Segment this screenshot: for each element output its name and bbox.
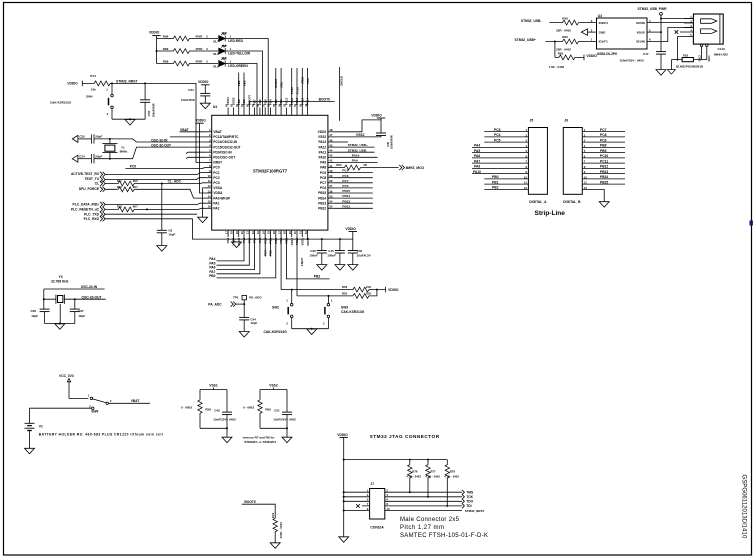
net BOOT0 bbox=[249, 102, 334, 108]
svg-text:PC15/OSC32-OUT: PC15/OSC32-OUT bbox=[213, 145, 240, 149]
net PB13 bbox=[335, 202, 373, 204]
capacitor C37 bbox=[74, 299, 76, 323]
capacitor C26 bbox=[317, 251, 327, 254]
svg-text:10nF/25V - 0402: 10nF/25V - 0402 bbox=[213, 417, 236, 421]
svg-text:PC1: PC1 bbox=[213, 171, 219, 175]
ground bbox=[239, 332, 249, 338]
wire PB8 bbox=[243, 73, 245, 108]
svg-text:6K7: 6K7 bbox=[133, 185, 138, 189]
MCU top pin stubs bbox=[228, 108, 308, 116]
svg-text:R60: R60 bbox=[562, 35, 568, 39]
svg-text:SH11: SH11 bbox=[708, 55, 711, 62]
USB shield pins bbox=[700, 44, 702, 46]
svg-text:STM32F100RGT7: STM32F100RGT7 bbox=[253, 169, 288, 174]
svg-text:8MHZ_MCO: 8MHZ_MCO bbox=[406, 166, 425, 170]
svg-text:TDI: TDI bbox=[466, 504, 471, 508]
capacitor C44 bbox=[239, 317, 249, 320]
svg-text:CON10A: CON10A bbox=[370, 526, 384, 530]
svg-text:4.7K - 0402: 4.7K - 0402 bbox=[444, 475, 459, 479]
svg-text:VDDIO: VDDIO bbox=[67, 82, 78, 86]
net flag TCK bbox=[462, 495, 464, 500]
svg-text:R58: R58 bbox=[205, 407, 211, 411]
svg-text:PC10: PC10 bbox=[600, 154, 608, 158]
svg-text:10K: 10K bbox=[366, 285, 371, 289]
svg-text:R68: R68 bbox=[163, 60, 169, 64]
svg-text:J6: J6 bbox=[564, 119, 568, 123]
svg-text:47: 47 bbox=[329, 133, 333, 137]
svg-text:R52: R52 bbox=[336, 163, 342, 167]
svg-text:100nF: 100nF bbox=[309, 253, 318, 257]
svg-text:PB13: PB13 bbox=[318, 201, 326, 205]
svg-text:PB12: PB12 bbox=[600, 165, 608, 169]
svg-text:C24: C24 bbox=[79, 154, 85, 158]
svg-text:Male Connector 2x5: Male Connector 2x5 bbox=[400, 517, 460, 523]
svg-text:STM32_NRST: STM32_NRST bbox=[116, 79, 137, 83]
resistor R60 bbox=[259, 390, 261, 429]
svg-text:PC4: PC4 bbox=[494, 133, 501, 137]
svg-text:JTDO: JTDO bbox=[301, 76, 305, 84]
svg-text:PC5: PC5 bbox=[269, 250, 273, 256]
svg-text:10: 10 bbox=[208, 174, 212, 178]
switch SW6 bbox=[90, 397, 92, 399]
J5 wires rows 10-12 bbox=[484, 179, 528, 190]
node bbox=[129, 118, 131, 120]
svg-text:PA10: PA10 bbox=[352, 153, 360, 157]
wire LED-YELLOW net bbox=[225, 51, 262, 115]
svg-text:VBAT: VBAT bbox=[180, 128, 189, 132]
svg-text:BOOT0: BOOT0 bbox=[319, 97, 331, 101]
ground bbox=[55, 324, 65, 330]
svg-text:10pF: 10pF bbox=[250, 321, 257, 325]
svg-text:DFU_FORCE: DFU_FORCE bbox=[79, 187, 100, 191]
wire bbox=[30, 408, 92, 423]
svg-text:NRST: NRST bbox=[213, 161, 222, 165]
svg-text:VBUS: VBUS bbox=[636, 30, 644, 34]
svg-text:PLC_TXD: PLC_TXD bbox=[84, 212, 100, 216]
svg-text:TCK: TCK bbox=[466, 495, 473, 499]
wire PA5 bbox=[217, 237, 250, 265]
svg-text:3K6: 3K6 bbox=[133, 179, 138, 183]
svg-text:PA_ADC: PA_ADC bbox=[208, 302, 222, 306]
capacitor C49 bbox=[226, 390, 228, 429]
net flag TDO bbox=[462, 499, 464, 504]
wire bbox=[112, 118, 145, 120]
svg-text:39: 39 bbox=[329, 174, 333, 178]
crystal Y1 bbox=[109, 139, 111, 159]
capacitor C47 bbox=[656, 52, 666, 55]
svg-text:100nF: 100nF bbox=[327, 253, 336, 257]
svg-text:4.7K - 0402: 4.7K - 0402 bbox=[425, 475, 440, 479]
svg-text:R77: R77 bbox=[431, 469, 437, 473]
svg-text:10pF: 10pF bbox=[78, 314, 85, 318]
wire VSSA bbox=[203, 188, 206, 217]
svg-text:PC13/TAMP/RTC: PC13/TAMP/RTC bbox=[213, 135, 239, 139]
svg-text:U4: U4 bbox=[598, 14, 602, 18]
net flag TMS bbox=[462, 490, 464, 495]
capacitor C45 bbox=[335, 251, 345, 254]
svg-text:PC7: PC7 bbox=[600, 128, 607, 132]
capacitor C46 bbox=[348, 251, 358, 254]
wire PB11 to SW3 bbox=[296, 237, 298, 296]
svg-text:PB6: PB6 bbox=[258, 99, 262, 105]
svg-text:PC0: PC0 bbox=[130, 164, 137, 168]
IC U4 USBLC6-2P6 bbox=[597, 18, 648, 49]
svg-text:PLC_DATA_INDx: PLC_DATA_INDx bbox=[73, 203, 100, 207]
wire TDO bbox=[307, 68, 309, 108]
svg-text:C&K-KSR213G: C&K-KSR213G bbox=[264, 330, 288, 334]
svg-text:STM32_USB+: STM32_USB+ bbox=[515, 38, 536, 42]
MCU left pin stubs and names bbox=[206, 132, 212, 209]
svg-text:R66: R66 bbox=[163, 35, 169, 39]
connector J7 bbox=[370, 489, 385, 520]
svg-text:R56: R56 bbox=[342, 285, 348, 289]
svg-text:35: 35 bbox=[329, 194, 333, 198]
svg-text:remove R7 and R8 for: remove R7 and R8 for bbox=[243, 435, 276, 439]
svg-text:TDO: TDO bbox=[306, 77, 310, 84]
switch SW4 bbox=[111, 83, 113, 94]
wire VDDA bbox=[200, 123, 206, 193]
svg-text:12: 12 bbox=[208, 184, 212, 188]
net PB2 bbox=[286, 237, 329, 279]
svg-text:PB4: PB4 bbox=[269, 99, 273, 105]
svg-text:10uF/6.3V: 10uF/6.3V bbox=[357, 253, 371, 257]
svg-text:VSS1: VSS1 bbox=[301, 237, 305, 245]
svg-text:TDO: TDO bbox=[466, 500, 473, 504]
resistor R66 bbox=[172, 36, 191, 41]
resistor R58 bbox=[199, 390, 201, 429]
svg-text:PB12: PB12 bbox=[318, 207, 326, 211]
svg-text:DL7: DL7 bbox=[213, 39, 219, 43]
ground bbox=[307, 329, 317, 335]
svg-text:STM32_USB+: STM32_USB+ bbox=[348, 143, 368, 147]
svg-text:VDD3: VDD3 bbox=[226, 97, 230, 105]
svg-text:PC8: PC8 bbox=[320, 176, 326, 180]
wire LED-RED net bbox=[225, 39, 268, 116]
svg-text:SW4: SW4 bbox=[86, 95, 93, 99]
border fold mark right edge bbox=[750, 221, 753, 226]
svg-text:PB10: PB10 bbox=[290, 237, 294, 245]
net STM32_USB+ bbox=[335, 146, 375, 148]
node (junction LED rail row2) bbox=[156, 50, 158, 52]
svg-text:1.5K - 0402: 1.5K - 0402 bbox=[549, 65, 565, 69]
MCU right pin stubs and names bbox=[328, 132, 335, 209]
svg-text:100nF/X5R: 100nF/X5R bbox=[390, 135, 394, 149]
svg-text:OSC-32-OUT: OSC-32-OUT bbox=[82, 295, 102, 299]
wire PB0 bbox=[217, 237, 276, 278]
wire bbox=[157, 63, 219, 65]
svg-text:100K - 0402: 100K - 0402 bbox=[279, 522, 283, 539]
svg-text:11: 11 bbox=[208, 179, 211, 183]
svg-text:R21: R21 bbox=[271, 512, 275, 518]
wire bbox=[69, 385, 88, 398]
svg-text:DL5: DL5 bbox=[213, 64, 219, 68]
svg-text:PC5: PC5 bbox=[494, 138, 501, 142]
capacitor C48 bbox=[376, 133, 386, 136]
svg-text:GSPG06112013DI1410: GSPG06112013DI1410 bbox=[741, 475, 747, 539]
svg-text:44: 44 bbox=[329, 149, 333, 153]
svg-text:10: 10 bbox=[386, 507, 390, 511]
svg-text:TEST_TX: TEST_TX bbox=[85, 177, 100, 181]
svg-text:34: 34 bbox=[329, 200, 333, 204]
svg-text:PD0/OSC-IN: PD0/OSC-IN bbox=[213, 150, 232, 154]
svg-text:470R: 470R bbox=[195, 60, 203, 64]
svg-text:PC9: PC9 bbox=[320, 171, 326, 175]
svg-text:R69: R69 bbox=[163, 47, 169, 51]
net PA9 bbox=[335, 161, 378, 163]
svg-text:PC9: PC9 bbox=[600, 138, 607, 142]
wire bbox=[156, 36, 158, 64]
svg-text:PLC_RXD: PLC_RXD bbox=[84, 217, 100, 221]
svg-text:SW2: SW2 bbox=[272, 306, 279, 310]
svg-text:4.7K - 0402: 4.7K - 0402 bbox=[406, 475, 421, 479]
wire PC4 bbox=[264, 237, 266, 257]
svg-text:VDD1: VDD1 bbox=[306, 237, 310, 245]
svg-text:PA10: PA10 bbox=[318, 156, 326, 160]
svg-text:PB7: PB7 bbox=[253, 99, 257, 105]
svg-text:PB0: PB0 bbox=[492, 175, 499, 179]
svg-text:R76: R76 bbox=[412, 469, 418, 473]
net PC9 bbox=[335, 172, 373, 174]
wire OSC-OUT bbox=[94, 147, 206, 159]
resistor R68 bbox=[172, 61, 191, 66]
svg-text:PB9: PB9 bbox=[600, 149, 607, 153]
svg-text:IO1/IN: IO1/IN bbox=[636, 40, 645, 44]
svg-text:PA0-WKUP: PA0-WKUP bbox=[213, 196, 231, 200]
resistor R31 bbox=[116, 187, 135, 192]
svg-text:PC6: PC6 bbox=[342, 184, 348, 188]
J7 right pins bbox=[385, 492, 462, 510]
resistor R76 bbox=[409, 460, 411, 493]
svg-text:PC10: PC10 bbox=[295, 87, 299, 94]
net PA10 bbox=[335, 156, 378, 158]
svg-text:PB13: PB13 bbox=[600, 170, 608, 174]
svg-text:ACTIVE-TEST_RX: ACTIVE-TEST_RX bbox=[71, 172, 100, 176]
svg-text:0R: 0R bbox=[363, 163, 367, 167]
capacitor C34 bbox=[200, 93, 210, 96]
svg-text:PB0: PB0 bbox=[209, 274, 216, 278]
svg-text:36: 36 bbox=[329, 189, 333, 193]
resistor R74 bbox=[92, 81, 111, 86]
USB contact horn 2 bbox=[701, 29, 717, 34]
wire NTRST bbox=[275, 68, 277, 108]
wire VDDIO rail bbox=[344, 437, 448, 536]
svg-text:VSSA: VSSA bbox=[213, 186, 222, 190]
svg-text:C25: C25 bbox=[79, 135, 85, 139]
no-connect X USB pin4 bbox=[675, 30, 679, 34]
svg-text:C37: C37 bbox=[78, 309, 84, 313]
wire PC10 bbox=[296, 68, 298, 108]
svg-text:STM32_USB-: STM32_USB- bbox=[348, 148, 367, 152]
wire U4 VBUS bbox=[647, 31, 661, 33]
svg-text:PA11: PA11 bbox=[319, 150, 327, 154]
net VBAT bbox=[108, 402, 150, 404]
switch SW2 bbox=[291, 289, 293, 291]
wire VSS2 bbox=[335, 136, 382, 138]
battery V1 bbox=[25, 423, 35, 430]
svg-text:C&K-KSR213G: C&K-KSR213G bbox=[50, 100, 72, 104]
svg-text:STM32_USB-: STM32_USB- bbox=[521, 19, 542, 23]
svg-text:BOOT0: BOOT0 bbox=[244, 500, 256, 504]
svg-text:VDDIO: VDDIO bbox=[195, 119, 206, 123]
svg-text:OSC-32-IN: OSC-32-IN bbox=[81, 285, 98, 289]
svg-text:SW3: SW3 bbox=[341, 306, 348, 310]
svg-text:VSS2: VSS2 bbox=[318, 135, 326, 139]
node VDD1 rail bbox=[307, 238, 309, 240]
svg-text:PA8: PA8 bbox=[320, 166, 326, 170]
wire PA4 bbox=[217, 237, 245, 261]
svg-text:PC11: PC11 bbox=[290, 87, 294, 94]
svg-text:PC4: PC4 bbox=[263, 250, 267, 256]
node bbox=[554, 41, 556, 43]
MCU bottom pin stubs bbox=[228, 230, 308, 239]
svg-text:R59: R59 bbox=[562, 16, 568, 20]
USB pin stubs bbox=[678, 19, 694, 37]
ground bbox=[667, 70, 675, 75]
node STM32_NRST bbox=[111, 82, 113, 84]
svg-text:PA5: PA5 bbox=[474, 149, 480, 153]
ferrite bead FB5 bbox=[682, 58, 693, 62]
svg-text:R55: R55 bbox=[342, 292, 348, 296]
svg-text:R32: R32 bbox=[117, 205, 122, 209]
svg-text:PA9: PA9 bbox=[352, 159, 358, 163]
wire PB1 to SW2 bbox=[280, 237, 282, 290]
USB connector C143 MINI-USB bbox=[693, 14, 723, 44]
ground bbox=[270, 543, 280, 549]
svg-text:VSS1: VSS1 bbox=[209, 384, 218, 388]
wire PA13 bbox=[335, 141, 349, 143]
svg-text:PA13: PA13 bbox=[318, 140, 326, 144]
J7 left pins bbox=[344, 492, 370, 510]
svg-text:0 - 0603: 0 - 0603 bbox=[181, 405, 192, 409]
ground bbox=[339, 537, 349, 543]
svg-text:100nF/X5R: 100nF/X5R bbox=[152, 103, 156, 117]
net PB12 bbox=[335, 207, 373, 209]
ground bbox=[200, 103, 210, 109]
svg-text:CL: CL bbox=[95, 181, 99, 185]
svg-text:R60: R60 bbox=[265, 407, 271, 411]
svg-text:PB8: PB8 bbox=[600, 144, 607, 148]
svg-text:PC6: PC6 bbox=[320, 186, 326, 190]
svg-text:PLC_RESETN_uC: PLC_RESETN_uC bbox=[71, 208, 100, 212]
svg-text:CL_ADC: CL_ADC bbox=[168, 179, 182, 183]
svg-text:43: 43 bbox=[329, 154, 333, 158]
svg-text:PA9: PA9 bbox=[320, 161, 326, 165]
svg-text:33: 33 bbox=[329, 205, 333, 209]
svg-text:IO2/IN: IO2/IN bbox=[636, 21, 645, 25]
J6 row 12 to ground bbox=[582, 189, 604, 201]
ground U4 GND pin bbox=[588, 31, 597, 33]
wire JTDI bbox=[280, 68, 282, 108]
svg-text:NTRST: NTRST bbox=[274, 78, 278, 88]
svg-text:46: 46 bbox=[329, 138, 333, 142]
no-connect X pin7 bbox=[356, 504, 360, 508]
svg-text:10pF: 10pF bbox=[168, 233, 175, 237]
wire bbox=[204, 85, 206, 103]
wire PD0 bbox=[186, 152, 206, 153]
wire LED-GREEN net bbox=[225, 64, 257, 116]
ground bbox=[222, 437, 232, 443]
wire bbox=[157, 50, 219, 52]
wire bbox=[45, 323, 75, 325]
svg-text:J5: J5 bbox=[530, 119, 534, 123]
resistor R11 bbox=[116, 181, 135, 186]
svg-text:LED-RED: LED-RED bbox=[228, 39, 243, 43]
svg-text:10k: 10k bbox=[91, 88, 96, 92]
svg-text:C34: C34 bbox=[188, 88, 194, 92]
svg-text:PC3: PC3 bbox=[213, 181, 219, 185]
svg-text:PA4: PA4 bbox=[474, 144, 480, 148]
resistor R60b bbox=[561, 39, 580, 44]
svg-text:PC9: PC9 bbox=[342, 169, 348, 173]
resistor R55 bbox=[297, 290, 377, 296]
net STM32_USB- bbox=[335, 151, 375, 153]
svg-text:VDDIO: VDDIO bbox=[337, 433, 348, 437]
svg-text:PB15: PB15 bbox=[318, 191, 326, 195]
svg-text:R78: R78 bbox=[450, 469, 456, 473]
svg-text:DIGITAL_B: DIGITAL_B bbox=[563, 200, 581, 204]
svg-text:VDDIO: VDDIO bbox=[149, 31, 160, 35]
svg-text:PB2: PB2 bbox=[314, 275, 321, 279]
wire U4 pin6 to USB pin3 bbox=[647, 28, 693, 42]
wire VDD2 to VDDIO bbox=[335, 120, 382, 132]
svg-text:PB15: PB15 bbox=[600, 180, 608, 184]
svg-text:22R - 0402: 22R - 0402 bbox=[556, 29, 571, 33]
capacitor C51 bbox=[286, 390, 288, 429]
svg-text:37: 37 bbox=[329, 184, 333, 188]
svg-text:VSS2: VSS2 bbox=[356, 133, 365, 137]
ground VSSA bbox=[198, 217, 208, 223]
resistor R62 bbox=[555, 42, 584, 58]
wire PC5 bbox=[270, 237, 272, 257]
ground bbox=[157, 246, 167, 252]
capacitor C36 bbox=[40, 309, 50, 312]
ground bbox=[25, 448, 35, 454]
svg-text:PC7: PC7 bbox=[342, 179, 348, 183]
svg-text:20pF: 20pF bbox=[95, 154, 102, 158]
svg-text:J7: J7 bbox=[370, 482, 374, 486]
svg-text:6K7: 6K7 bbox=[133, 205, 138, 209]
resistor R78 bbox=[446, 460, 448, 506]
ground bbox=[335, 265, 345, 271]
svg-text:VBAT: VBAT bbox=[131, 399, 140, 403]
svg-text:PA12: PA12 bbox=[318, 145, 326, 149]
J5 wires rows 4-9 bbox=[472, 147, 528, 173]
wire OSC-IN bbox=[94, 139, 206, 142]
power flag VDDIO (USB pullup) bbox=[583, 55, 585, 61]
USB contact horn 1 bbox=[701, 19, 717, 24]
resistor R21 bbox=[273, 517, 277, 532]
capacitor C50 bbox=[144, 83, 146, 119]
svg-text:VDDIO: VDDIO bbox=[388, 288, 399, 292]
wire SWCLK bbox=[339, 67, 341, 121]
svg-text:C51: C51 bbox=[274, 408, 280, 412]
svg-text:20pF: 20pF bbox=[95, 135, 102, 139]
ground VSS4 bbox=[233, 237, 236, 242]
wire PB9 bbox=[238, 73, 240, 108]
svg-text:42: 42 bbox=[329, 159, 333, 163]
svg-text:LED-YELLOW: LED-YELLOW bbox=[228, 51, 251, 55]
ground bbox=[282, 437, 292, 443]
svg-text:Pitch 1.27 mm: Pitch 1.27 mm bbox=[400, 525, 444, 531]
svg-text:R74: R74 bbox=[90, 74, 96, 78]
ground bbox=[317, 265, 327, 271]
svg-text:40: 40 bbox=[329, 169, 333, 173]
net OSC-32-OUT bbox=[75, 298, 106, 300]
svg-text:PB14: PB14 bbox=[342, 194, 350, 198]
ground bbox=[125, 120, 135, 126]
svg-text:OSC-32-OUT: OSC-32-OUT bbox=[151, 143, 171, 147]
svg-text:PD1/OSC-OUT: PD1/OSC-OUT bbox=[213, 156, 235, 160]
